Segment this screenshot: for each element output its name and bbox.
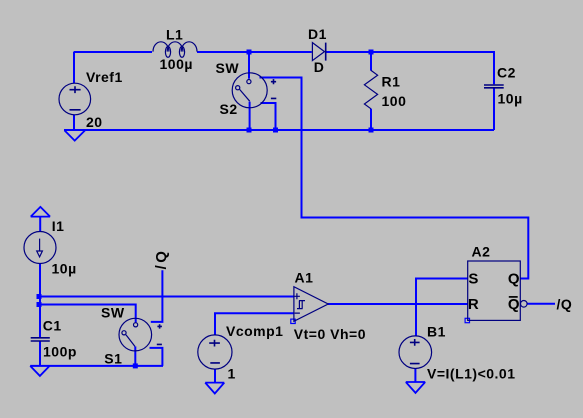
svg-text:D1: D1: [308, 26, 327, 42]
svg-text:C1: C1: [43, 317, 62, 333]
svg-text:S: S: [468, 271, 479, 288]
svg-text:SW: SW: [216, 60, 240, 76]
svg-text:10µ: 10µ: [52, 261, 77, 277]
svg-text:V=I(L1)<0.01: V=I(L1)<0.01: [427, 366, 516, 382]
svg-text:L1: L1: [166, 26, 183, 42]
svg-text:Vcomp1: Vcomp1: [226, 323, 283, 339]
svg-text:10µ: 10µ: [498, 91, 523, 107]
svg-text:Q: Q: [508, 271, 520, 288]
svg-text:Vref1: Vref1: [86, 69, 123, 85]
svg-text:/Q: /Q: [153, 249, 170, 270]
svg-text:A2: A2: [472, 244, 491, 260]
svg-text:SW: SW: [101, 305, 125, 321]
svg-text:R: R: [468, 296, 479, 313]
svg-text:Q: Q: [508, 296, 520, 313]
svg-text:100µ: 100µ: [160, 56, 193, 72]
svg-text:1: 1: [228, 366, 236, 382]
svg-text:Vt=0 Vh=0: Vt=0 Vh=0: [294, 326, 366, 342]
svg-text:S1: S1: [104, 350, 122, 366]
svg-text:100: 100: [382, 93, 407, 109]
svg-text:A1: A1: [295, 270, 314, 286]
svg-text:/Q: /Q: [557, 296, 573, 312]
svg-text:R1: R1: [382, 74, 401, 90]
svg-text:D: D: [314, 59, 325, 75]
svg-text:B1: B1: [427, 324, 446, 340]
svg-text:100p: 100p: [43, 344, 77, 360]
svg-text:20: 20: [86, 114, 103, 130]
svg-text:I1: I1: [52, 218, 65, 234]
svg-text:S2: S2: [220, 101, 238, 117]
svg-text:C2: C2: [497, 64, 516, 80]
